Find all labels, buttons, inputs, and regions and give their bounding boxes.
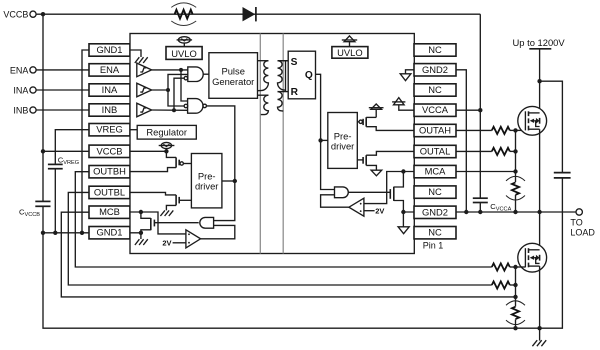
wire Q output [316,74,335,189]
node CVCCA tie [478,210,482,214]
MOSFET high-side [518,106,547,135]
supply symbol UVLO right [342,36,357,47]
svg-text:INB: INB [102,104,118,115]
wire VCCB internal [130,150,166,152]
pin box GND2 (top) [414,64,456,76]
svg-text:2V: 2V [375,206,384,215]
node MCB tie [513,295,517,299]
svg-text:UVLO: UVLO [337,47,363,58]
wire low-side source to ground rail [539,266,541,341]
transformer T1 primary [257,61,268,91]
varistor B (gate-source) [506,301,525,325]
node GND1-top-tie [80,231,84,235]
svg-text:GND1: GND1 [96,227,122,238]
node OUTBL tie [513,283,517,287]
block Pulse Generator [209,53,258,99]
wire ENA to gates [152,69,188,71]
pin box VCCA [414,104,456,116]
wire GND2 bottom internal [403,212,414,227]
wire CVCCB to GND1 [42,207,44,233]
svg-text:VCCB: VCCB [3,10,28,20]
node clamp B source [139,231,143,235]
terminal INB [30,107,36,113]
block Pre-driver A [328,113,358,169]
wire 2V right [364,210,375,212]
transistor PMOS B [130,151,191,171]
pin box OUTBH [89,166,130,178]
svg-text:ENA: ENA [100,64,120,75]
AND gate clamp A [335,187,349,198]
wire VCCA down to CVCCA [479,110,481,197]
node OUTAL tie [513,149,517,153]
wire AND A out to clamp gate [348,191,390,193]
wire varistor B to ground rail [515,319,517,328]
node MCB clamp drain [139,210,143,214]
svg-text:OUTAL: OUTAL [420,146,451,157]
gnd2 symbol bottom [398,227,409,234]
wire varistor A to GND2 line [515,195,517,212]
transistor PMOS A [357,117,414,130]
wire AND A in2 from comparator [321,195,349,207]
wire low-side drain from switch node [539,212,541,250]
block UVLO right [332,47,368,59]
transistor clamp NMOS A [390,172,403,213]
MOSFET low-side [518,243,547,272]
block Regulator [130,125,196,139]
svg-text:INA: INA [102,84,118,95]
capacitor CVREG [48,164,63,168]
gnd2 symbol NMOS A [371,170,382,176]
NAND gate B-input (bottom) [184,99,206,114]
terminal ENA [30,67,36,73]
pin box OUTAL [414,145,456,157]
wire OUTBH external run [75,172,492,267]
wire R input [278,91,289,93]
wire MCA external [456,171,516,173]
wire 2V left [173,242,186,244]
resistor bootstrap (top) [171,3,196,26]
wire GND2 top internal [406,70,415,74]
svg-text:NC: NC [428,84,442,95]
schmitt buffer INA [137,83,152,97]
wire VCCB top rail [36,13,480,15]
gnd2 symbol top [400,74,411,81]
wire GND1 bottom line [43,232,130,234]
svg-text:NC: NC [428,186,442,197]
schmitt buffer INB [137,103,152,117]
wire MCA internal [364,172,414,204]
wire VCCB vertical rail [42,14,44,201]
terminal INA [30,87,36,93]
comparator B [186,230,201,248]
node predriver A input [318,138,322,142]
svg-text:GND2: GND2 [422,206,448,217]
wire 1200V stem [539,49,541,113]
pin box INB [89,104,130,116]
transistor clamp NMOS B [141,212,199,233]
node varistor B ground [513,326,517,330]
wire ENA [36,69,89,71]
svg-text:GND2: GND2 [422,64,448,75]
wire OUTAH to gate [510,129,526,131]
node switch node [537,210,541,214]
svg-text:MCB: MCB [99,206,120,217]
node OUTAH gate [513,128,517,132]
node GND1-CVREG [53,231,57,235]
comparator A [349,198,364,216]
wire OUTBL external run [68,192,492,285]
block SR latch [288,51,315,99]
wire MCB external run [61,212,515,297]
ground symbol GND1 internal [135,57,148,63]
svg-text:MCA: MCA [425,166,447,177]
AND gate A-input (top) [184,67,203,82]
wire GND1 internal line [130,233,141,239]
node VCCA bootstrap [478,108,482,112]
wire VCCA internal [399,105,414,110]
svg-text:OUTBL: OUTBL [94,186,125,197]
wire OUTAL tie [510,150,516,152]
pin box VCCB [89,145,130,157]
svg-text:INB: INB [13,106,28,116]
svg-text:OUTAH: OUTAH [419,125,451,136]
pin box OUTBL [89,186,130,198]
transformer T2 secondary [278,92,284,112]
node VCCB stub junction [41,149,45,153]
pin box INA [89,84,130,96]
resistor OUTBH gate [492,263,510,270]
svg-text:Pin 1: Pin 1 [423,240,444,250]
pin box NC 1 [414,44,456,56]
diode bootstrap [243,7,256,21]
pin box OUTAH [414,124,456,136]
wire OUTBL res to node [510,284,516,286]
wire VCCA external [456,109,480,111]
schmitt buffer ENA [137,63,152,77]
wire MCB internal [130,212,186,234]
transformer T2 primary [258,95,269,114]
wire bootstrap rail down [479,14,481,110]
node predriver B input [233,179,237,183]
node INA branch [166,88,170,92]
node varistor A tie [513,210,517,214]
node 1200V branch [537,79,541,83]
svg-text:S: S [291,57,298,68]
svg-text:VCCA: VCCA [422,104,449,115]
capacitor CVCCA [473,198,488,202]
svg-text:driver: driver [195,181,218,192]
node clamp A source [401,210,405,214]
pin box MCA [414,165,456,177]
wire S input [278,60,289,62]
block UVLO left [166,47,202,60]
pin box GND1 (bottom) [89,227,130,239]
wire comparator B out to AND [201,225,235,238]
wire NAND-B out to predriver B [207,106,235,221]
node VCCB rail junction [41,12,45,16]
svg-text:Generator: Generator [212,76,254,87]
wire OUTAH external [456,129,492,131]
svg-text:2V: 2V [162,239,171,248]
node MCA clamp drain [401,169,405,173]
svg-text:TO: TO [570,217,582,227]
wire predriver A input stub [321,139,328,141]
wire predriver B input stub [222,180,235,182]
capacitor CVCCB [35,201,50,206]
wire VCCB pin stub [43,150,89,152]
sensor symbol VCCB supply [159,142,175,151]
block Pre-driver B [191,154,222,208]
wire GND2 external line to load [456,211,576,213]
wire INB out [152,109,188,111]
supply symbol PMOS A [369,104,384,117]
node INB branch [172,108,176,112]
pin box ENA [89,64,130,76]
svg-text:INA: INA [13,86,28,96]
isolation barrier line right [282,34,284,254]
node ENA branch [179,68,183,72]
wire OUTBH res to node [510,266,516,268]
IC package box [130,34,414,254]
wire high-side source to switch node [539,129,541,212]
node MCA tie [513,169,517,173]
svg-text:VCCB: VCCB [96,145,122,156]
wire INA [36,89,89,91]
wire GND1 internal stub [130,50,141,57]
node VCCB supply internal [164,149,168,153]
wire GND2 top external [456,70,466,212]
transistor NMOS B [130,192,191,210]
wire low-side gate lead [516,266,526,268]
pin box MCB [89,206,130,218]
wire ENA down to NAND [181,70,188,101]
wire CVCCA to GND2 line [479,203,481,212]
pin box NC 4 [414,227,456,239]
resistor OUTAL gate [492,148,510,155]
svg-text:R: R [291,87,299,98]
ground symbol clamp B [135,239,148,245]
transformer T1 secondary [278,61,289,92]
wire INA up to AND [168,74,188,90]
wire OUTAL external [456,150,492,152]
wire AND-A out to pulse generator [203,73,209,75]
node OUTBH gate [513,265,517,269]
pin box GND2 (bottom) [414,206,456,218]
wire INA down to NAND bubble [168,90,184,106]
ground symbol power [532,340,546,346]
svg-text:Up to 1200V: Up to 1200V [513,37,566,48]
resistor OUTAH gate [492,127,510,134]
svg-text:VREG: VREG [96,124,123,135]
node GND1-CVCCB [41,231,45,235]
node GND2a tie [464,210,468,214]
svg-text:driver: driver [331,141,354,152]
node low-side source ground [537,326,541,330]
transistor NMOS A [357,151,414,170]
svg-text:Q: Q [305,70,313,81]
wire gate bus B [515,267,517,307]
pin box NC 3 [414,186,456,198]
svg-text:OUTBH: OUTBH [93,166,126,177]
svg-text:UVLO: UVLO [171,48,197,59]
pin box NC 2 [414,84,456,96]
pin box GND1 (top) [89,44,130,56]
wire GND1 to bottom rail [43,178,562,328]
svg-text:NC: NC [428,44,442,55]
svg-text:Regulator: Regulator [146,127,187,138]
terminal VCCB [30,11,36,17]
svg-text:ENA: ENA [10,65,29,75]
wire INB up to AND bubble [174,78,184,110]
wire GND1 top pin stub [82,50,89,233]
svg-text:LOAD: LOAD [570,227,595,237]
wire INB [36,109,89,111]
pin box VREG [89,124,130,136]
wire gate bus A [515,130,517,182]
ground symbol NMOS B source [160,210,173,216]
wire VREG stub [55,130,89,164]
sensor symbol UVLO left [177,37,193,47]
svg-text:NC: NC [428,227,442,238]
capacitor DC bus [554,173,571,178]
wire CVREG to GND1 [54,169,56,233]
wire 1200V to bus capacitor [540,81,563,172]
isolation barrier line left [259,34,261,254]
AND gate clamp B (mirrored) [200,217,214,228]
supply bar 1200V [529,48,551,50]
wire INA out [152,89,168,91]
resistor OUTBL gate [492,281,510,288]
supply symbol VCCA pin [392,98,405,105]
svg-text:GND1: GND1 [96,44,122,55]
terminal TO LOAD [576,209,582,215]
svg-text:Pulse: Pulse [221,66,244,77]
varistor A (gate-source) [506,176,525,200]
